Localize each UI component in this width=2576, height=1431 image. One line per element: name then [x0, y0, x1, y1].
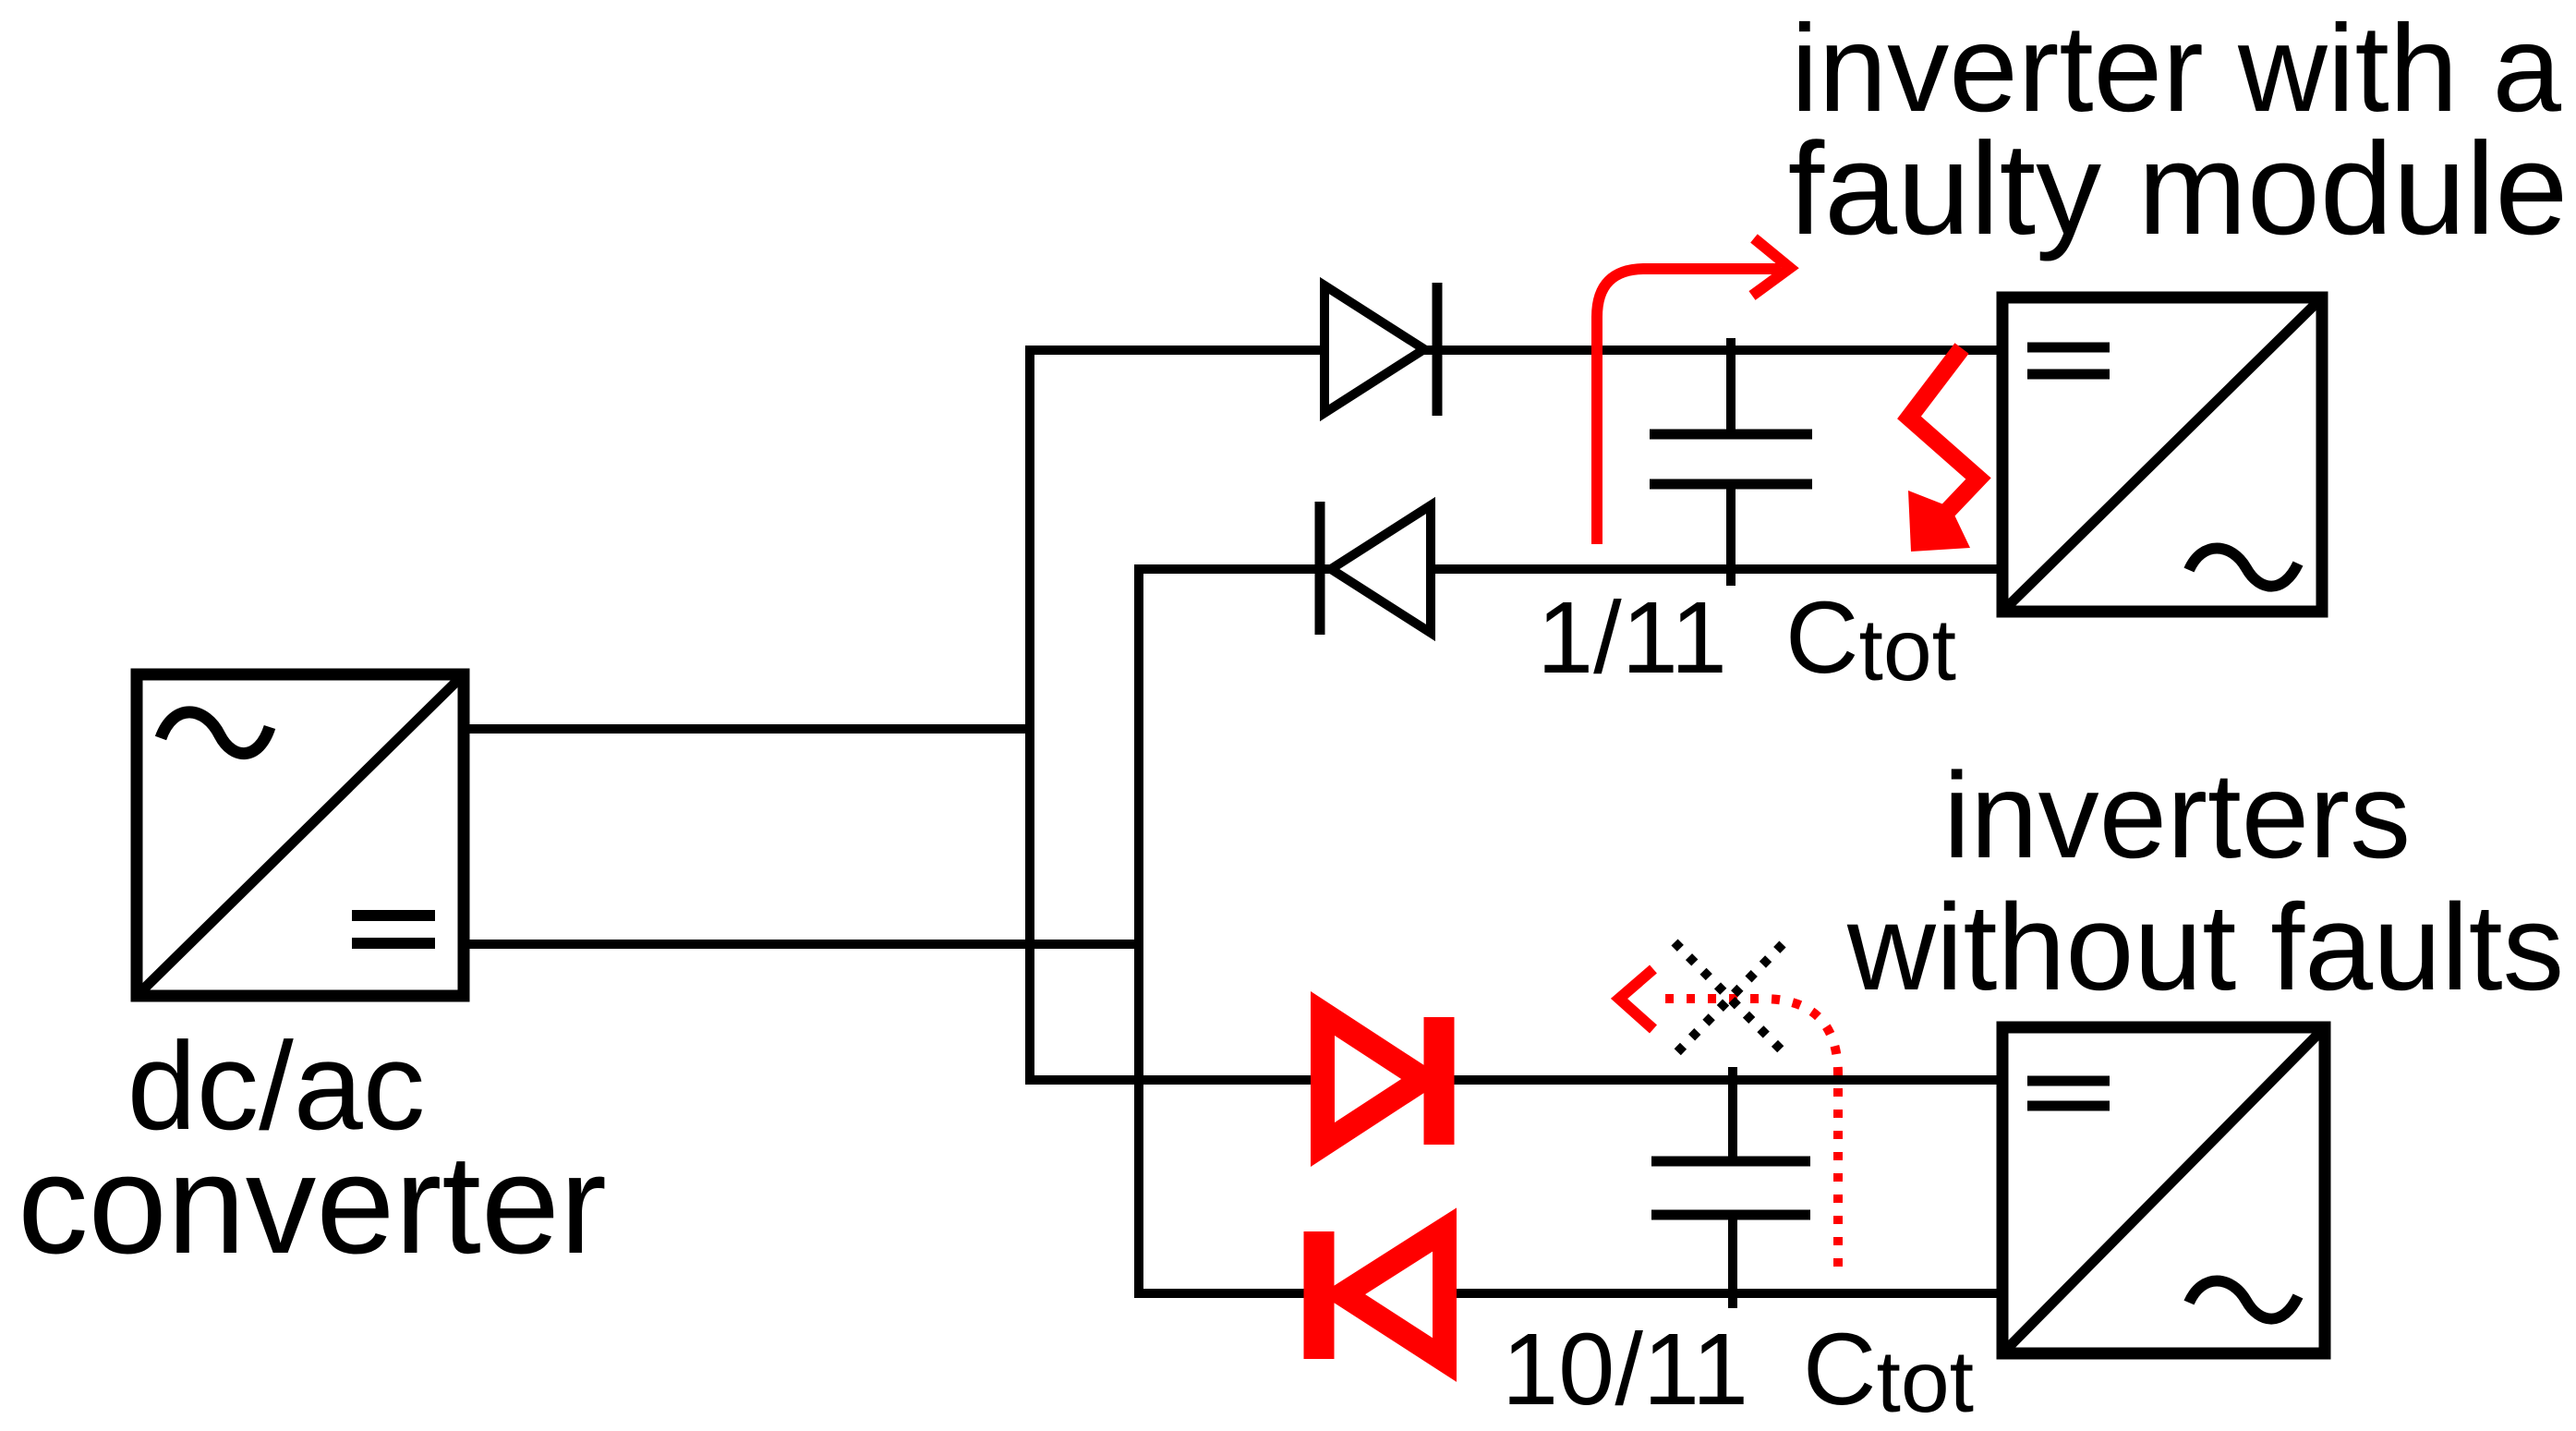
- wire: node N vertical bus: [1134, 564, 1143, 1298]
- diode D1: [1324, 283, 1437, 416]
- wire: top branch positive rail: [1025, 346, 2005, 355]
- svg-text:1/11: 1/11: [1537, 581, 1727, 695]
- inverter U2 (inverter with a faulty module): [2002, 297, 2322, 612]
- blocked current arrow (red, dotted): [1658, 999, 1838, 1267]
- wire: top branch negative rail: [1134, 564, 2005, 574]
- svg-text:inverters: inverters: [1943, 747, 2411, 883]
- wire: lower branch negative rail: [1134, 1289, 2002, 1298]
- diode D3 (red, lower branch top): [1323, 1013, 1439, 1145]
- capacitor C2 (10/11 Ctot): [1651, 1067, 1810, 1308]
- diode D2: [1320, 502, 1431, 635]
- svg-text:10/11: 10/11: [1502, 1313, 1748, 1426]
- svg-text:converter: converter: [18, 1125, 607, 1283]
- capacitor C1 (1/11 Ctot): [1650, 338, 1812, 586]
- blocked-path X (black, dotted): [1675, 942, 1784, 1053]
- inverter U3 (inverters without faults): [2002, 1027, 2325, 1353]
- fault current arrow (red, solid): [1597, 238, 1790, 544]
- wire: dc/ac bottom output: [458, 940, 1143, 949]
- converter U1 (dc/ac converter): [137, 674, 464, 996]
- diode D4 (red, lower branch bottom): [1319, 1230, 1445, 1360]
- fault zigzag (red lightning into inverter): [1908, 348, 1978, 552]
- wire: dc/ac top output: [458, 724, 1034, 734]
- wire: node P vertical bus: [1025, 346, 1034, 1085]
- svg-text:faulty module: faulty module: [1788, 115, 2569, 262]
- wire: lower branch positive rail: [1025, 1075, 2002, 1085]
- svg-text:without faults: without faults: [1846, 879, 2564, 1016]
